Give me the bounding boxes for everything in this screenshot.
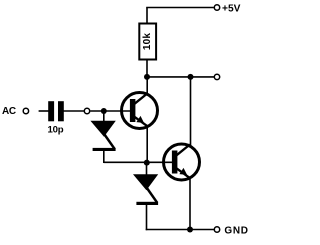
wire resistor bottom stub <box>146 60 148 79</box>
transistor Q1 base bar <box>130 99 136 122</box>
transistor Q2 emitter stroke <box>177 168 190 178</box>
transistor Q2 base bar <box>172 151 178 174</box>
zener D1 anode lead <box>103 111 105 122</box>
wire mid rail <box>147 76 214 78</box>
zener D1 cathode lead <box>103 151 105 163</box>
svg-text:10p: 10p <box>48 124 64 135</box>
wire terminal to Q1 base <box>90 110 130 112</box>
terminal after capacitor <box>84 108 89 113</box>
wire resistor top stub <box>146 8 148 25</box>
node junction at D1 anode <box>101 108 107 114</box>
wire node to Q2 base <box>147 161 173 163</box>
transistor Q1 collector lead <box>146 77 148 94</box>
wire bottom rail <box>146 229 214 231</box>
zener D2 cathode bar <box>136 202 158 205</box>
zener D1 triangle <box>90 121 115 137</box>
zener D2 cathode lead <box>146 205 148 230</box>
svg-text:GND: GND <box>224 226 248 237</box>
svg-text:+5V: +5V <box>222 3 241 14</box>
node junction bottom rail <box>187 227 193 233</box>
zener D2 bent cathode wing <box>147 188 157 203</box>
wire capacitor to terminal <box>64 110 85 112</box>
zener D1 bent cathode wing <box>105 135 115 150</box>
transistor Q1 collector stroke <box>135 93 148 104</box>
svg-text:AC: AC <box>2 106 16 117</box>
transistor Q2 emitter arrowhead <box>179 168 187 175</box>
terminal AC input <box>23 108 28 113</box>
zener D1 cathode bar <box>93 148 116 151</box>
transistor Q2 collector stroke <box>177 145 190 156</box>
transistor Q2 emitter lead <box>189 178 191 231</box>
svg-text:10k: 10k <box>142 33 153 51</box>
wire D1 bottom L to Q2 base node <box>104 161 148 163</box>
zener D2 anode lead <box>146 163 148 175</box>
transistor Q1 emitter lead <box>146 126 148 163</box>
node junction Q1 emitter / Q2 base <box>144 160 150 166</box>
terminal +5V <box>214 5 219 10</box>
transistor Q1 emitter arrowhead <box>136 116 144 123</box>
wire Q2 collector rail <box>190 77 192 147</box>
zener D2 triangle <box>133 174 158 190</box>
resistor R1 body <box>139 24 156 60</box>
wire AC to capacitor <box>39 110 49 112</box>
terminal mid <box>214 74 219 79</box>
capacitor C1 plate left <box>48 101 54 121</box>
node junction under resistor <box>144 74 150 80</box>
transistor Q1 emitter stroke <box>135 117 148 127</box>
node junction mid rail <box>188 74 194 80</box>
transistor Q2 circle <box>164 144 200 180</box>
transistor Q1 circle <box>122 93 158 129</box>
wire top rail to +5V <box>146 7 214 9</box>
capacitor C1 plate right <box>58 101 64 121</box>
terminal GND <box>214 227 219 232</box>
